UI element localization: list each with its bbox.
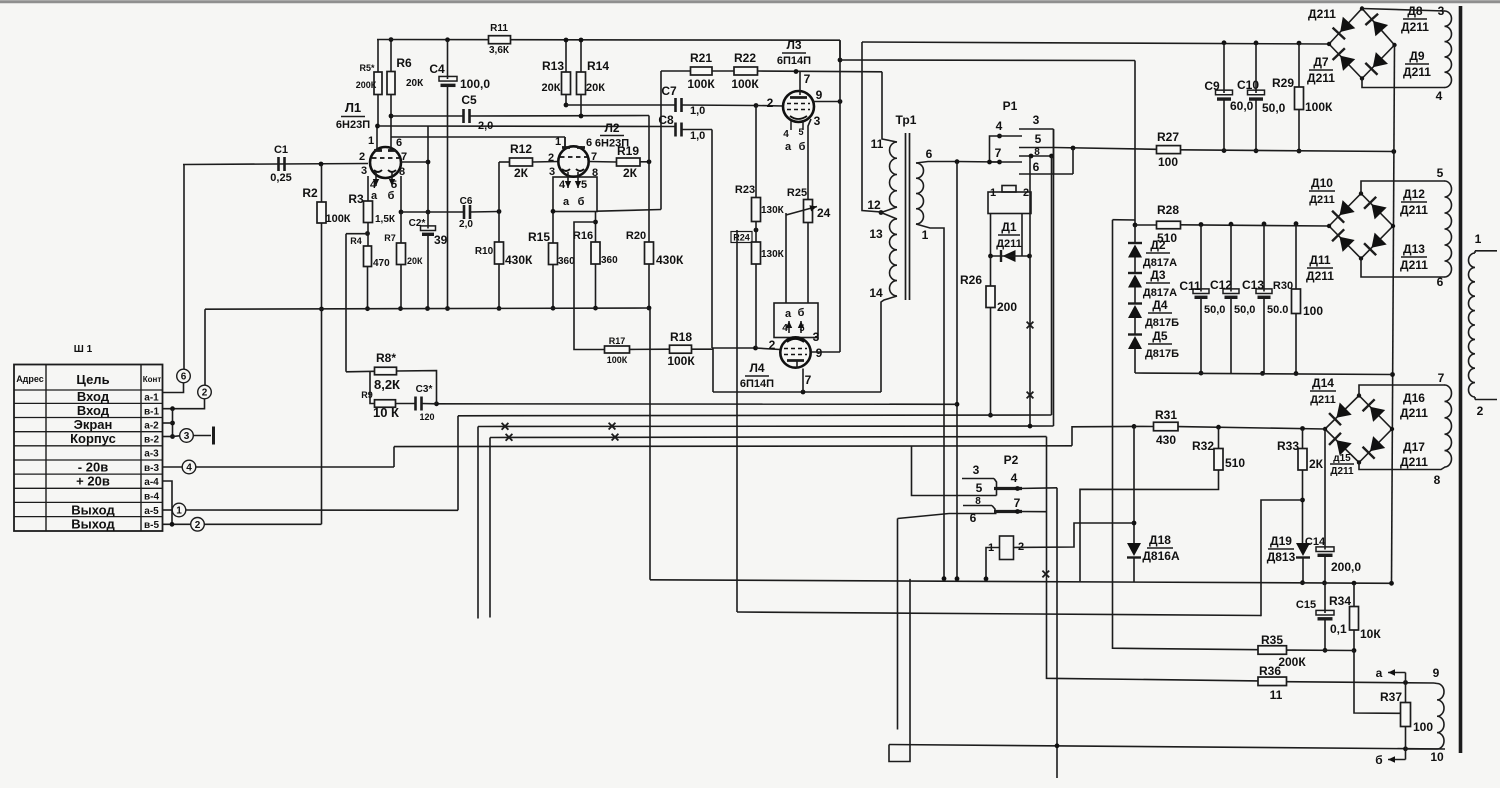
- wire grid wire Л3 y105: [566, 104, 676, 106]
- svg-text:2К: 2К: [514, 166, 529, 180]
- wire в-1 а-2 в-2 tie: [170, 409, 175, 439]
- svg-text:430: 430: [1156, 433, 1176, 447]
- svg-text:а: а: [785, 141, 792, 153]
- label Д211 b1: [1308, 7, 1336, 21]
- svg-text:7: 7: [1014, 496, 1021, 510]
- wire x1053 return: [1053, 130, 1055, 427]
- svg-text:5: 5: [798, 127, 803, 137]
- node R26 output: [988, 413, 993, 418]
- svg-text:4: 4: [186, 463, 192, 474]
- node R28 left: [1133, 223, 1138, 228]
- wire pin7 to x428: [401, 161, 428, 163]
- wire b3 top lead: [1359, 385, 1445, 396]
- label Д14: [1310, 376, 1336, 406]
- svg-text:Д211: Д211: [1403, 65, 1431, 79]
- svg-text:R7: R7: [384, 233, 396, 243]
- svg-text:Выход: Выход: [71, 503, 115, 518]
- wire Д1 line: [991, 255, 1030, 257]
- resistor R13: [542, 59, 571, 95]
- node x957 bus: [955, 576, 960, 581]
- wire feedback y404: [437, 403, 958, 406]
- node C13 top: [1262, 222, 1267, 227]
- resistor R37: [1380, 690, 1433, 734]
- wire R7 bottom: [400, 265, 402, 309]
- svg-text:R3: R3: [348, 192, 364, 206]
- node C7/R23: [754, 103, 759, 108]
- svg-text:11: 11: [871, 137, 884, 151]
- resistor R12: [510, 142, 533, 180]
- node Д1 left: [988, 254, 993, 259]
- svg-text:100К: 100К: [325, 213, 350, 225]
- x mark heater a1: [502, 423, 509, 430]
- wire Д19 bottom: [1302, 558, 1304, 583]
- wire C15 bottom: [1324, 618, 1326, 650]
- wire node2 to в-1: [163, 399, 205, 409]
- node C9 top: [1222, 40, 1227, 45]
- svg-text:R4: R4: [350, 236, 362, 246]
- svg-text:Д211: Д211: [1310, 394, 1336, 406]
- wire R12 to grid: [533, 161, 559, 164]
- svg-text:R23: R23: [735, 184, 755, 196]
- x mark heater a2: [609, 423, 616, 430]
- node bracket y162: [987, 160, 992, 165]
- resistor R14: [577, 59, 610, 95]
- svg-text:5: 5: [799, 323, 804, 333]
- diode Д2: [1128, 238, 1177, 269]
- wire в-5 stub: [163, 523, 191, 525]
- svg-text:R37: R37: [1380, 690, 1402, 704]
- winding Тр1 secondary: [916, 163, 924, 224]
- wire b2 top lead: [1361, 181, 1445, 194]
- capacitor C3*: [416, 384, 435, 422]
- x mark heater b1: [506, 434, 513, 441]
- node x957: [955, 159, 960, 164]
- svg-text:R15: R15: [528, 230, 550, 244]
- wire bridge right drop: [1392, 45, 1395, 583]
- resistor R20: [626, 230, 684, 267]
- svg-text:С15: С15: [1296, 599, 1316, 611]
- wire а-4 drop: [163, 481, 173, 524]
- svg-text:R10: R10: [475, 246, 494, 257]
- svg-text:1: 1: [368, 135, 374, 147]
- node Д1 right: [1027, 254, 1032, 259]
- node R37 bottom: [1403, 746, 1408, 751]
- node pin9 x840: [838, 99, 843, 104]
- svg-text:Д211: Д211: [1401, 20, 1429, 34]
- svg-text:3: 3: [813, 330, 820, 344]
- arrow R25 adjust: [786, 205, 817, 215]
- node R24 bottom: [753, 346, 758, 351]
- winding 7-8: [1445, 385, 1452, 467]
- node C1 output junction: [319, 162, 324, 167]
- svg-text:R30: R30: [1273, 280, 1293, 292]
- resistor R8*: [374, 351, 400, 392]
- svg-text:100,0: 100,0: [460, 77, 490, 91]
- capacitor C4: [429, 62, 490, 91]
- capacitor C6: [459, 196, 473, 230]
- svg-text:8: 8: [1034, 147, 1040, 158]
- node C15 bottom: [1323, 648, 1328, 653]
- label 5 w: [1437, 166, 1444, 180]
- diode Д1: [996, 220, 1022, 262]
- wire speaker return y745: [889, 745, 1445, 750]
- resistor R24: [752, 242, 785, 264]
- wire sec bottom 1: [916, 224, 944, 579]
- svg-text:1: 1: [176, 506, 182, 517]
- node C10 top: [1254, 41, 1259, 46]
- svg-text:Д211: Д211: [1309, 194, 1335, 206]
- x mark 1: [1027, 322, 1034, 329]
- node R29 bottom: [1297, 149, 1302, 154]
- wire x897 stub: [897, 519, 899, 730]
- svg-text:5: 5: [1035, 132, 1042, 146]
- wire R10 bottom: [498, 264, 500, 308]
- wire R15 lead: [552, 212, 554, 244]
- svg-text:50,0: 50,0: [1262, 101, 1286, 115]
- svg-text:6Н23П: 6Н23П: [336, 119, 370, 131]
- wire bottom bus: [650, 580, 1392, 584]
- svg-text:8: 8: [1434, 473, 1441, 487]
- svg-text:R33: R33: [1277, 439, 1299, 453]
- chassis ground: [193, 427, 213, 445]
- node R7 bus: [398, 306, 403, 311]
- wire pin6 coupling y137: [391, 137, 565, 147]
- node x944 bus: [942, 576, 947, 581]
- svg-text:Д14: Д14: [1312, 376, 1334, 390]
- resistor R10: [475, 242, 533, 267]
- wire heater y437: [490, 436, 1047, 439]
- wire R9 left stub: [370, 371, 375, 403]
- svg-text:R8*: R8*: [376, 351, 396, 365]
- svg-text:100: 100: [1303, 304, 1323, 318]
- svg-text:3: 3: [973, 463, 980, 477]
- wire x649 top: [648, 116, 650, 162]
- wire R37 bottom: [1405, 727, 1407, 749]
- contact P1-4: [996, 119, 1022, 138]
- wire x478 stub: [477, 427, 479, 619]
- svg-text:Р1: Р1: [1003, 99, 1018, 113]
- diode Д5: [1128, 329, 1179, 360]
- wire ground drop x321: [321, 309, 323, 524]
- node Л4 pin7: [801, 390, 806, 395]
- svg-text:Тр1: Тр1: [896, 113, 917, 127]
- svg-text:в-3: в-3: [144, 463, 159, 474]
- svg-text:10К: 10К: [1360, 627, 1381, 641]
- wire Д18 vertical: [1133, 426, 1135, 543]
- wire coil1 lead: [990, 214, 992, 257]
- svg-text:R2: R2: [302, 186, 318, 200]
- svg-text:24: 24: [817, 206, 831, 220]
- label 3 w: [1438, 4, 1445, 18]
- resistor R31: [1154, 408, 1179, 447]
- svg-text:200,0: 200,0: [1331, 560, 1361, 574]
- node P1-8 x1051: [1049, 154, 1054, 159]
- node tap12: [879, 210, 884, 215]
- svg-text:470: 470: [373, 258, 390, 269]
- svg-text:8,2К: 8,2К: [374, 377, 400, 392]
- svg-text:7: 7: [1438, 371, 1445, 385]
- wire x1135 drop: [1134, 61, 1136, 226]
- node R19/R20/C5: [647, 159, 652, 164]
- bridge rectifier Д14-Д17: [1323, 393, 1394, 464]
- svg-text:12: 12: [867, 198, 881, 212]
- node R30 bus: [1294, 371, 1299, 376]
- core power transformer: [1459, 6, 1463, 753]
- label 4 w: [1436, 89, 1443, 103]
- label Д16: [1400, 391, 1428, 420]
- node R2 bus: [319, 307, 324, 312]
- svg-text:R16: R16: [573, 230, 593, 242]
- resistor R19: [617, 144, 641, 180]
- label 7 w: [1438, 371, 1445, 385]
- svg-text:R34: R34: [1329, 594, 1351, 608]
- wire mid bus y373: [1135, 373, 1393, 375]
- svg-text:Л2: Л2: [604, 121, 619, 135]
- svg-text:8: 8: [399, 166, 405, 178]
- wire R12 left drop: [499, 162, 510, 212]
- label Л2: [595, 121, 629, 150]
- wire R6 bottom: [390, 95, 392, 117]
- svg-text:Л3: Л3: [786, 38, 801, 52]
- svg-text:С2*: С2*: [409, 218, 426, 229]
- wire y348 to R24 bottom: [712, 347, 756, 349]
- svg-text:8: 8: [592, 167, 598, 179]
- label Д8: [1401, 4, 1429, 34]
- node R27 right end: [1391, 149, 1396, 154]
- node P1-8 x1031: [1029, 154, 1034, 159]
- label Л1: [336, 100, 370, 131]
- diode Д18: [1127, 533, 1180, 563]
- svg-text:R17: R17: [609, 336, 626, 346]
- wire sec y162 to P1: [957, 161, 1000, 164]
- svg-text:1: 1: [1475, 232, 1482, 246]
- svg-text:0,25: 0,25: [270, 172, 291, 184]
- wire top B+ rail: [377, 39, 840, 42]
- capacitor C7: [661, 84, 705, 117]
- svg-text:6: 6: [396, 137, 402, 149]
- wire R23 top: [755, 106, 757, 198]
- contact P2-3: [962, 463, 997, 496]
- label 8 w: [1434, 473, 1441, 487]
- wire Л4 pin7 lead: [802, 369, 804, 393]
- wire C12 leads: [1230, 224, 1232, 373]
- wire C11 leads: [1200, 225, 1202, 374]
- svg-text:2: 2: [195, 520, 201, 531]
- contact P2-6 line: [949, 511, 997, 525]
- diode Д19: [1267, 534, 1310, 564]
- wire C9 leads: [1223, 43, 1225, 151]
- wire R34 leads: [1353, 583, 1355, 650]
- wire R10 top: [498, 212, 500, 243]
- svg-text:Вход: Вход: [77, 389, 110, 404]
- svg-text:Л1: Л1: [345, 100, 361, 115]
- svg-text:а-5: а-5: [144, 506, 159, 517]
- wire primary lead 1: [1475, 251, 1497, 253]
- x mark heater b2: [612, 434, 619, 441]
- svg-text:б: б: [798, 307, 805, 319]
- wire R5 bottom: [377, 95, 379, 127]
- svg-text:Выход: Выход: [71, 517, 115, 532]
- wire x490 stub: [489, 438, 491, 618]
- svg-text:60,0: 60,0: [1230, 99, 1254, 113]
- capacitor C9: [1204, 79, 1253, 113]
- wire R15 bottom: [552, 265, 554, 309]
- svg-text:2: 2: [1023, 187, 1029, 199]
- label 2 pw: [1477, 404, 1484, 418]
- node C11 top: [1199, 222, 1204, 227]
- node C2 bus: [425, 306, 430, 311]
- svg-text:Д211: Д211: [1306, 269, 1334, 283]
- svg-text:Д211: Д211: [1400, 406, 1428, 420]
- wire R30 leads: [1295, 224, 1297, 374]
- node C13 bus: [1260, 371, 1265, 376]
- resistor R11: [489, 23, 511, 56]
- wire x737 vertical: [736, 230, 738, 612]
- wire P1-5 to R27: [1055, 148, 1157, 150]
- svg-text:R36: R36: [1259, 664, 1281, 678]
- svg-text:R20: R20: [626, 230, 646, 242]
- diode Д4: [1128, 298, 1179, 329]
- svg-text:Ш 1: Ш 1: [74, 344, 93, 355]
- svg-text:430К: 430К: [505, 253, 533, 267]
- svg-text:Д2: Д2: [1150, 238, 1166, 252]
- wire R4 bottom: [367, 267, 369, 309]
- node x1058 y745: [1055, 743, 1060, 748]
- svg-text:Д816А: Д816А: [1142, 549, 1180, 563]
- svg-text:Д211: Д211: [1400, 258, 1428, 272]
- svg-text:7: 7: [995, 146, 1002, 160]
- svg-text:Л4: Л4: [749, 361, 764, 375]
- node R3/R4 junction: [365, 223, 370, 247]
- wire R22 right: [758, 70, 883, 73]
- svg-text:100: 100: [1158, 155, 1178, 169]
- label Л4: [740, 361, 774, 390]
- wire R28 left lead: [1135, 224, 1157, 226]
- label Р2: [1004, 453, 1019, 467]
- label 11: [871, 137, 884, 151]
- node x957 y404: [955, 402, 960, 407]
- wire x661 to R21: [661, 70, 691, 72]
- wire output y415: [458, 414, 1052, 417]
- resistor R29: [1272, 76, 1333, 114]
- wire P2-5 left: [912, 446, 950, 495]
- wire primary lead 2: [1475, 397, 1497, 400]
- wire Д18 bottom: [1133, 558, 1135, 583]
- node R32 top: [1216, 425, 1221, 430]
- svg-text:0,1: 0,1: [1330, 622, 1347, 636]
- svg-text:2,0: 2,0: [478, 120, 493, 132]
- wire x1053 bracket: [1053, 129, 1055, 174]
- svg-text:в-1: в-1: [144, 407, 159, 418]
- svg-text:9: 9: [816, 88, 823, 102]
- svg-text:С11: С11: [1179, 279, 1201, 293]
- svg-text:Цель: Цель: [76, 372, 109, 387]
- capacitor C2*: [409, 218, 448, 247]
- svg-text:Д18: Д18: [1149, 533, 1171, 547]
- wire R21-R22: [712, 70, 734, 72]
- label Ш1: [74, 344, 93, 355]
- label Л3: [777, 38, 811, 67]
- wire b1 top to winding: [1362, 9, 1445, 12]
- wire to Л4 grid: [756, 348, 781, 350]
- wire x650 drop: [649, 308, 651, 580]
- wire R19 right: [640, 161, 649, 163]
- wire Тр1-11 lead: [882, 72, 897, 142]
- wire B+ top rail 2: [862, 42, 1329, 44]
- svg-text:Д3: Д3: [1150, 268, 1166, 282]
- svg-text:R18: R18: [670, 330, 692, 344]
- wire x957 down: [956, 162, 958, 579]
- wire pin8 lead: [400, 176, 402, 212]
- bridge rectifier Д10-Д13: [1327, 191, 1395, 260]
- label Тр1: [896, 113, 917, 127]
- relay coil P1: [988, 186, 1031, 214]
- resistor R5*: [356, 63, 382, 95]
- contact P1-8: [1019, 147, 1054, 158]
- tube Л4 6П14П: [774, 303, 818, 369]
- svg-text:3: 3: [1033, 113, 1040, 127]
- wire в-2 to node3: [173, 435, 180, 438]
- wire x712 drop: [711, 130, 713, 349]
- svg-text:R11: R11: [490, 23, 508, 34]
- wire heater y426: [478, 425, 1054, 428]
- wire s-jog: [889, 579, 910, 762]
- resistor R15: [528, 230, 575, 267]
- node coil P2 bus: [984, 576, 989, 581]
- svg-text:50,0: 50,0: [1204, 304, 1225, 316]
- wire P2-6 left: [898, 514, 950, 519]
- svg-text:6: 6: [586, 137, 592, 149]
- wire plate1 coupling y126: [378, 125, 676, 128]
- svg-text:Д211: Д211: [1307, 71, 1335, 85]
- node Л3 pin7: [794, 69, 799, 74]
- node C12 top: [1229, 222, 1234, 227]
- svg-text:С4: С4: [429, 62, 445, 76]
- wire node6 to а-1: [163, 383, 184, 393]
- svg-text:С13: С13: [1242, 278, 1264, 292]
- wire -20v riser: [393, 447, 395, 467]
- svg-text:а-1: а-1: [144, 393, 159, 404]
- label 10 sp: [1430, 750, 1444, 764]
- label 9 sp: [1433, 666, 1440, 680]
- wire C13 leads: [1263, 224, 1265, 374]
- wire feedback to R3R4: [346, 233, 368, 235]
- svg-text:R27: R27: [1157, 130, 1179, 144]
- wire R7 top: [400, 212, 402, 243]
- node R16 tap: [593, 220, 598, 225]
- wire R14 bottom: [580, 95, 582, 117]
- svg-text:Д817Б: Д817Б: [1145, 317, 1179, 329]
- label 6 w: [1437, 275, 1444, 289]
- node C6/R10/R12: [497, 209, 502, 214]
- node x1073: [1071, 146, 1076, 151]
- relay coil P2: [988, 536, 1024, 560]
- wire to winding 9: [1434, 682, 1437, 685]
- svg-text:6: 6: [181, 372, 187, 383]
- resistor R34: [1329, 594, 1381, 641]
- svg-text:2: 2: [202, 388, 208, 399]
- resistor R25: [787, 187, 831, 223]
- contact P1-5: [1019, 132, 1055, 148]
- core Тр1: [906, 133, 910, 300]
- wire zener chain: [1134, 225, 1136, 373]
- wire x1058 long: [1056, 488, 1058, 778]
- winding 9-10: [1437, 684, 1444, 750]
- wire R36 right: [1287, 682, 1435, 683]
- wire R31 right: [1178, 427, 1325, 429]
- svg-text:7: 7: [805, 373, 812, 387]
- svg-text:6: 6: [1033, 160, 1040, 174]
